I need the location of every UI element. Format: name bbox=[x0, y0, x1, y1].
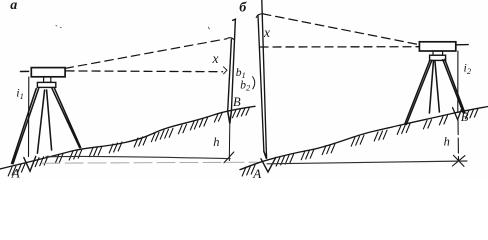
svg-text:i1: i1 bbox=[16, 86, 24, 102]
telescope body U1 (left level) bbox=[31, 68, 65, 77]
svg-text:i2: i2 bbox=[464, 61, 472, 77]
svg-text:x: x bbox=[212, 51, 219, 66]
svg-text:а: а bbox=[10, 0, 17, 13]
drop line from B to datum (right) bbox=[457, 120, 460, 161]
tripod right leg (right panel, double) bbox=[443, 59, 465, 113]
svg-text:x: x bbox=[263, 25, 270, 40]
speck dots bbox=[56, 26, 209, 30]
svg-text:b1: b1 bbox=[236, 67, 246, 80]
tripod middle legs (right) bbox=[429, 61, 439, 113]
V notch peg at point A (right) bbox=[261, 157, 276, 172]
datum line (right panel) bbox=[267, 161, 467, 164]
ground line (left panel) bbox=[0, 106, 255, 169]
tribrach (left) bbox=[37, 82, 55, 87]
plumb line over point B bbox=[457, 51, 459, 112]
cross tick at foot of right drop bbox=[452, 155, 465, 166]
tick at foot of B drop bbox=[224, 152, 234, 163]
telescope body U2 (right level) bbox=[419, 42, 455, 51]
eyepiece axis stub (right) bbox=[457, 44, 469, 46]
svg-text:b2: b2 bbox=[240, 79, 251, 92]
svg-text:h: h bbox=[444, 135, 450, 149]
ground line (right panel) bbox=[240, 107, 488, 170]
staff tip at B bbox=[228, 111, 232, 124]
staff at B (left rod, double line) bbox=[228, 19, 236, 111]
horizontal sight line (right, dashed) bbox=[260, 46, 419, 48]
inclined sight line (left, dashed) bbox=[65, 39, 227, 69]
telescope stem (left) bbox=[44, 77, 51, 83]
drop line from B to datum bbox=[228, 124, 231, 161]
brace tip at b1 bbox=[223, 67, 227, 74]
tripod middle legs bbox=[37, 90, 51, 153]
svg-text:А: А bbox=[11, 165, 20, 180]
plumb line over point A bbox=[28, 77, 30, 157]
svg-text:А: А bbox=[252, 166, 261, 180]
staff at A (right rod, double line) bbox=[258, 0, 266, 154]
svg-text:б: б bbox=[239, 1, 247, 16]
staff tip at A bbox=[264, 152, 267, 159]
tripod left leg (right panel, double) bbox=[405, 60, 432, 124]
ground hatching (right panel) bbox=[242, 109, 478, 176]
telescope stem (right) bbox=[433, 51, 443, 55]
horizontal sight line (left, dashed) bbox=[21, 70, 29, 72]
faint scan line (left) bbox=[42, 162, 258, 163]
V notch peg at point B (right) bbox=[453, 107, 463, 120]
datum line (left panel) bbox=[46, 156, 230, 158]
ground hatching (left panel) bbox=[8, 107, 249, 176]
paren after b2 bbox=[253, 77, 255, 89]
svg-text:B: B bbox=[233, 95, 241, 109]
svg-text:h: h bbox=[213, 135, 219, 149]
tripod right leg (double) bbox=[52, 88, 81, 147]
tribrach (right) bbox=[430, 55, 446, 60]
inclined sight line (right, dashed) bbox=[256, 14, 262, 18]
V notch peg at point A (left) bbox=[24, 156, 36, 171]
svg-text:B: B bbox=[461, 110, 469, 124]
tripod left leg (double) bbox=[12, 89, 39, 164]
